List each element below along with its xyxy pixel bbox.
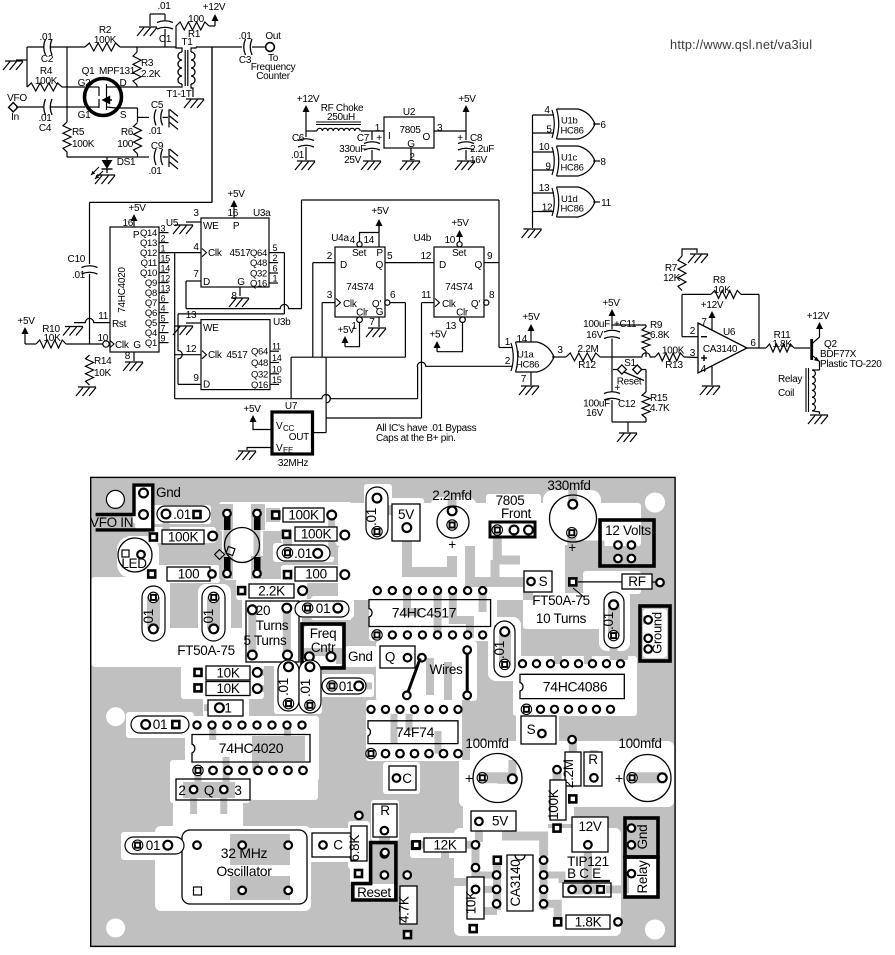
svg-text:12: 12: [542, 203, 553, 214]
svg-text:2.2K: 2.2K: [141, 69, 161, 80]
capacitor C1: [150, 1, 173, 47]
svg-text:U2: U2: [403, 107, 416, 118]
svg-text:25V: 25V: [344, 155, 362, 166]
power +12V Q2: [807, 311, 830, 330]
label Q1: [82, 66, 95, 77]
svg-text:7: 7: [701, 317, 707, 328]
wire U7 OUT: [313, 357, 331, 432]
wire top rail: [27, 46, 176, 48]
svg-text:Caps at the B+ pin.: Caps at the B+ pin.: [376, 433, 456, 444]
capacitor C6: [291, 131, 314, 161]
svg-text:4: 4: [701, 364, 707, 375]
svg-text:V: V: [276, 421, 283, 432]
svg-text:2: 2: [505, 356, 511, 367]
svg-text:Set: Set: [352, 248, 367, 259]
svg-text:Gnd: Gnd: [156, 485, 181, 500]
svg-text:S: S: [539, 574, 548, 589]
svg-text:74HC4086: 74HC4086: [543, 679, 608, 695]
svg-text:+5V: +5V: [429, 330, 447, 341]
svg-text:VFO: VFO: [7, 93, 27, 104]
svg-text:+5V: +5V: [451, 218, 469, 229]
resistor R7: [663, 249, 697, 291]
power +5V U4b Clr: [429, 330, 447, 352]
resistor R15: [642, 370, 670, 423]
mount hole ML: [106, 707, 125, 726]
op U1d wires: [533, 193, 555, 212]
res R box: [373, 803, 397, 837]
svg-text:74F74: 74F74: [396, 724, 435, 740]
inductor relay coil: [778, 368, 820, 414]
resistor R8: [682, 275, 759, 298]
ground U2: [400, 161, 420, 170]
svg-text:11: 11: [272, 342, 281, 352]
svg-text:FT50A-75: FT50A-75: [177, 643, 235, 658]
svg-text:8: 8: [125, 351, 131, 362]
U6 pin 4 ground: [700, 364, 720, 395]
power +5V U4b: [451, 218, 469, 242]
svg-text:Q48: Q48: [251, 358, 268, 369]
svg-text:CA3140: CA3140: [703, 344, 738, 355]
gate U1c HC86: [539, 142, 607, 176]
res 1.8K box: [553, 915, 622, 930]
wire D to T1: [120, 86, 176, 88]
svg-text:.01: .01: [291, 150, 305, 161]
svg-text:74S74: 74S74: [346, 282, 374, 293]
wire source bottom: [67, 156, 149, 158]
pad sq C1: [411, 841, 421, 851]
U5 output pins: [140, 224, 170, 350]
U4a pin 6 Qbar wire: [385, 290, 406, 357]
svg-text:100K: 100K: [168, 530, 199, 545]
svg-text:Clk: Clk: [115, 340, 130, 351]
svg-text:.01: .01: [601, 612, 616, 630]
svg-text:7805: 7805: [399, 125, 421, 136]
wire U2 out: [434, 130, 466, 132]
svg-text:Coil: Coil: [778, 388, 794, 399]
wire C2-R4 right vertical: [66, 47, 68, 107]
svg-text:10: 10: [539, 142, 550, 153]
svg-text:G1: G1: [78, 110, 91, 121]
svg-text:100: 100: [305, 567, 327, 582]
label Gnd mid: [348, 649, 373, 664]
svg-text:4: 4: [350, 235, 356, 246]
svg-text:S1: S1: [624, 358, 636, 369]
svg-text:C10: C10: [68, 254, 86, 265]
svg-text:R14: R14: [94, 356, 112, 367]
PCB white etch regions: [92, 484, 675, 936]
svg-text:4: 4: [544, 105, 550, 116]
U4a pin 3 Clk wire: [322, 290, 335, 357]
svg-text:+5V: +5V: [458, 94, 476, 105]
capacitor C7: [339, 131, 382, 166]
svg-text:LED: LED: [121, 556, 147, 571]
svg-text:10: 10: [444, 235, 455, 246]
svg-text:01: 01: [339, 679, 353, 694]
gate U1d HC86: [539, 183, 612, 217]
res 100K box1: [271, 508, 336, 523]
jumper S box B: [524, 571, 552, 592]
U6 pin 7 power: [701, 300, 724, 330]
svg-text:.01: .01: [276, 678, 291, 696]
svg-text:Clk: Clk: [208, 350, 223, 361]
res 10K box2: [193, 681, 261, 696]
svg-text:+12V: +12V: [807, 311, 830, 322]
svg-text:.01: .01: [141, 609, 156, 627]
ground C2 left: [3, 60, 27, 70]
svg-text:R: R: [588, 752, 598, 767]
svg-text:.01: .01: [157, 1, 171, 12]
jumper 1 box: [208, 700, 243, 716]
svg-text:+: +: [457, 133, 463, 144]
capacitor C11: [583, 318, 637, 357]
svg-text:+5V: +5V: [17, 316, 35, 327]
osc 32MHz pcb: [182, 830, 307, 904]
svg-text:Rst: Rst: [112, 319, 127, 330]
PCB gray trace strips: [133, 480, 662, 922]
capacitor C5: [138, 100, 169, 137]
capacitor C8: [457, 131, 494, 166]
svg-text:100K: 100K: [35, 76, 58, 87]
svg-text:4517: 4517: [229, 248, 251, 259]
trans TIP121 pcb: [563, 854, 611, 897]
svg-text:250uH: 250uH: [327, 112, 355, 123]
U5 pin 10 Clk: [97, 333, 141, 351]
svg-text:01: 01: [146, 838, 160, 853]
svg-text:Q1: Q1: [82, 66, 95, 77]
svg-text:1: 1: [375, 123, 381, 134]
svg-text:R13: R13: [665, 360, 683, 371]
U3a pin 8 G ground: [229, 287, 249, 307]
wire XOR input bus: [532, 115, 534, 228]
flipflop U4b 74S74: [414, 233, 484, 319]
svg-text:12V: 12V: [578, 819, 601, 834]
ground C1: [137, 27, 157, 36]
res 2.2M vert: [553, 752, 581, 804]
svg-text:Q: Q: [385, 650, 395, 665]
svg-text:16: 16: [227, 208, 238, 219]
svg-text:2: 2: [178, 783, 185, 798]
U4b pin 13 Clr: [437, 317, 465, 352]
svg-text:R: R: [380, 803, 390, 818]
svg-text:+12V: +12V: [297, 94, 320, 105]
U3b pin 9 D: [193, 373, 199, 384]
svg-text:Ground: Ground: [650, 612, 665, 654]
wire jumper 1: [403, 658, 420, 699]
U3b pin 12 Clk wire: [175, 344, 201, 355]
svg-text:5: 5: [546, 125, 552, 136]
svg-text:3: 3: [437, 123, 443, 134]
note bypass caps: [376, 423, 477, 444]
svg-text:R5: R5: [72, 127, 85, 138]
svg-text:+5V: +5V: [243, 404, 261, 415]
svg-text:6.8K: 6.8K: [347, 835, 362, 862]
res 100K box2: [149, 530, 218, 545]
svg-text:100K: 100K: [288, 508, 319, 523]
svg-text:OUT: OUT: [289, 432, 309, 443]
svg-text:3: 3: [690, 348, 696, 359]
svg-text:U5: U5: [166, 218, 179, 229]
svg-text:HC86: HC86: [561, 204, 584, 215]
cap .01 stadium A3: [276, 660, 299, 711]
resistor R11: [766, 330, 810, 352]
svg-text:Out: Out: [265, 31, 281, 42]
resistor R14: [86, 355, 113, 385]
ground C8: [455, 161, 475, 170]
svg-text:7: 7: [521, 374, 527, 385]
svg-text:HC86: HC86: [516, 360, 539, 371]
svg-text:T1: T1: [181, 37, 193, 48]
svg-text:100mfd: 100mfd: [618, 736, 661, 751]
svg-text:10K: 10K: [464, 891, 479, 914]
resistor R10: [25, 324, 103, 348]
svg-text:+5V: +5V: [602, 298, 620, 309]
regulator U2 7805: [375, 107, 443, 163]
svg-text:13: 13: [445, 321, 456, 332]
svg-text:15: 15: [272, 375, 282, 385]
svg-text:Q: Q: [204, 783, 214, 798]
svg-text:74HC4020: 74HC4020: [219, 740, 284, 756]
svg-text:In: In: [11, 112, 19, 123]
label Gnd top: [156, 485, 181, 500]
ic 74HC4517 pcb: [369, 587, 491, 640]
svg-text:1: 1: [505, 337, 511, 348]
resistor R3: [133, 47, 161, 87]
svg-text:D: D: [203, 277, 210, 288]
svg-text:+: +: [615, 770, 623, 786]
register U3a 4517: [201, 208, 271, 288]
svg-text:74HC4517: 74HC4517: [392, 605, 457, 621]
svg-text:D: D: [340, 260, 347, 271]
svg-text:+5V: +5V: [337, 325, 355, 336]
ground U7 VEE: [236, 448, 272, 461]
svg-text:6: 6: [273, 264, 278, 274]
svg-text:Gnd: Gnd: [348, 649, 373, 664]
power +5V U4a Clr: [337, 325, 355, 347]
ground U5 Rst: [63, 327, 83, 336]
cap .01 oval A3: [295, 601, 349, 617]
label D: [120, 78, 127, 89]
url text: [670, 37, 812, 52]
svg-text:14: 14: [363, 235, 374, 246]
svg-text:2: 2: [327, 251, 333, 262]
svg-text:Q16: Q16: [250, 279, 267, 290]
res R box D: [584, 752, 602, 786]
svg-text:Front: Front: [501, 506, 532, 521]
res 4.7K vert: [397, 886, 418, 939]
U4b pin 8 Qbar: [484, 290, 495, 305]
conn Reset: [353, 843, 411, 900]
power +5V C11: [602, 298, 620, 318]
svg-text:6: 6: [600, 120, 606, 131]
svg-text:4.7K: 4.7K: [650, 403, 670, 414]
U5 pin 11 Rst: [74, 311, 127, 330]
svg-text:3: 3: [557, 345, 563, 356]
svg-text:Q: Q: [475, 260, 483, 271]
svg-text:RF: RF: [628, 574, 645, 589]
svg-text:S: S: [527, 722, 536, 737]
svg-text:2.2uF: 2.2uF: [470, 144, 494, 155]
coil RF box: [568, 574, 664, 589]
capacitor C10: [68, 254, 98, 344]
svg-text:G: G: [237, 277, 245, 288]
label G1: [78, 110, 91, 121]
pads misc D: [472, 841, 480, 893]
capacitor C12: [583, 383, 636, 422]
cap .01 oval C1: [131, 716, 189, 733]
ic 74F74 pcb: [366, 706, 462, 759]
wire U6 feedback: [758, 294, 760, 348]
svg-text:2: 2: [690, 326, 696, 337]
svg-text:DS1: DS1: [117, 157, 136, 168]
svg-text:+12V: +12V: [203, 2, 226, 13]
wire jumper 2: [463, 646, 471, 699]
power +5V U2: [458, 94, 476, 131]
cap 2.2mfd: [432, 488, 471, 552]
svg-text:+12V: +12V: [701, 300, 724, 311]
svg-text:Q48: Q48: [250, 258, 267, 269]
cap .01 stadium A1: [141, 586, 165, 641]
ground C9: [169, 149, 178, 169]
svg-text:C1: C1: [159, 34, 172, 45]
svg-text:Q': Q': [471, 299, 480, 310]
U4b pin 12 D: [420, 251, 431, 262]
svg-text:Turns: Turns: [256, 618, 289, 633]
ic 74HC4086 pcb: [519, 660, 624, 714]
svg-text:.01: .01: [148, 126, 162, 137]
svg-text:U3b: U3b: [273, 317, 291, 328]
svg-text:P: P: [133, 230, 140, 241]
res 100K box3: [282, 527, 350, 542]
svg-text:2.2K: 2.2K: [258, 584, 285, 599]
svg-text:Reset: Reset: [617, 377, 642, 388]
svg-text:5 Turns: 5 Turns: [244, 633, 287, 648]
svg-text:2: 2: [273, 253, 278, 263]
U5 pin 8 G ground: [123, 351, 143, 371]
svg-text:7: 7: [369, 317, 375, 328]
conn Freq Cntr: [302, 624, 344, 668]
U6 pin 2 wire: [682, 294, 698, 337]
svg-text:20: 20: [256, 603, 270, 618]
svg-text:8: 8: [489, 290, 495, 301]
conn Gnd box D: [625, 818, 658, 857]
resistor R6: [117, 123, 141, 157]
svg-text:U4a: U4a: [331, 233, 349, 244]
svg-text:2.2M: 2.2M: [577, 344, 598, 355]
cap .01 oval C2: [125, 837, 184, 854]
U3b pin 13 WE: [186, 310, 201, 323]
svg-text:U3a: U3a: [253, 208, 271, 219]
svg-text:.01: .01: [238, 31, 252, 42]
ground C7: [361, 161, 381, 170]
cap 330mfd: [547, 478, 596, 555]
svg-text:330uF: 330uF: [339, 144, 366, 155]
diode DS1 LED: [91, 157, 136, 179]
svg-text:1: 1: [224, 701, 231, 716]
node T1-C3 junction vertical: [211, 47, 213, 202]
cap .01 stadium A4: [298, 660, 321, 713]
label FT50A-75 B: [532, 588, 590, 626]
power +5V R10: [17, 316, 35, 344]
label MPF131: [99, 66, 136, 77]
U6 pin 6 output: [747, 338, 766, 349]
U3a pin 7 D wire: [186, 269, 302, 309]
svg-text:R12: R12: [578, 360, 596, 371]
svg-text:G: G: [376, 307, 384, 318]
svg-text:32MHz: 32MHz: [278, 458, 308, 469]
svg-text:EE: EE: [283, 446, 293, 455]
svg-text:100: 100: [178, 567, 200, 582]
svg-text:+5V: +5V: [128, 203, 146, 214]
svg-text:1: 1: [273, 274, 278, 284]
svg-text:100: 100: [188, 14, 205, 25]
svg-text:8: 8: [600, 157, 606, 168]
cap 100mfd right: [615, 736, 671, 802]
svg-text:Counter: Counter: [256, 71, 290, 82]
ground R7: [688, 254, 708, 263]
mount hole TR: [645, 493, 665, 513]
wire R12 to R13: [612, 353, 655, 357]
svg-text:10K: 10K: [216, 681, 239, 696]
svg-text:C2: C2: [41, 54, 54, 65]
svg-text:Wires: Wires: [430, 662, 464, 677]
jumper Q box: [380, 646, 426, 668]
conn Relay box: [625, 857, 658, 897]
svg-text:9: 9: [487, 251, 493, 262]
mount hole TL: [106, 490, 124, 508]
svg-text:C: C: [333, 838, 343, 853]
svg-text:+: +: [465, 770, 473, 786]
capacitor C4: [38, 99, 85, 134]
svg-text:Freq: Freq: [310, 626, 337, 641]
pad sq bottom left: [381, 849, 389, 857]
svg-text:100: 100: [117, 139, 134, 150]
svg-text:P: P: [233, 221, 240, 232]
transformer T1: [166, 37, 196, 100]
ground T1: [184, 99, 204, 108]
svg-text:CA3140: CA3140: [508, 860, 523, 907]
svg-text:+5V: +5V: [522, 312, 540, 323]
mount hole BL: [106, 919, 125, 938]
svg-text:B C E: B C E: [567, 866, 601, 881]
wire left vertical: [26, 47, 28, 87]
cap .01 oval A2: [277, 545, 330, 561]
counter U5 74HC4020: [110, 218, 179, 352]
svg-text:VFO IN: VFO IN: [90, 515, 133, 530]
svg-text:.01: .01: [173, 507, 191, 522]
flipflop U4a 74S74: [331, 233, 385, 319]
svg-text:5V: 5V: [492, 814, 508, 829]
conn Ground: [640, 606, 670, 661]
svg-text:.01: .01: [148, 166, 162, 177]
svg-text:C5: C5: [151, 100, 164, 111]
U4a pin 2 D wire: [313, 251, 335, 357]
svg-text:Q: Q: [376, 260, 384, 271]
svg-text:10K: 10K: [94, 368, 112, 379]
wire U3a Q64 to U3b D: [178, 253, 284, 385]
svg-text:.01: .01: [39, 32, 53, 43]
reg 7805 pcb: [490, 493, 535, 537]
wire choke left: [306, 130, 317, 132]
wire S node: [116, 108, 138, 122]
res 100K vert: [546, 780, 566, 833]
ground R14: [76, 387, 96, 396]
svg-text:3: 3: [193, 208, 199, 219]
resistor R5: [63, 107, 95, 157]
svg-text:1.8K: 1.8K: [772, 339, 792, 350]
svg-text:R6: R6: [121, 127, 134, 138]
oscillator U7 32MHz: [272, 401, 313, 469]
U4b pin 10 Set: [444, 235, 462, 247]
